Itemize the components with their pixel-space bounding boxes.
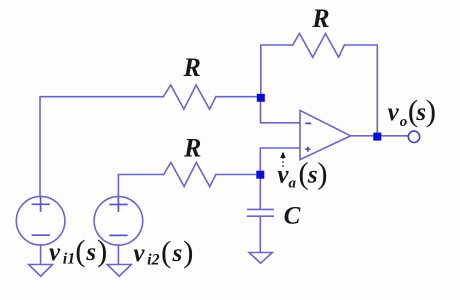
wire: op-amp non-inverting input to node B xyxy=(260,148,299,171)
wire: node B down to capacitor xyxy=(259,178,261,208)
capacitor C bottom plate xyxy=(248,215,274,217)
wire: feedback top right segment down to output node xyxy=(344,45,377,133)
node A (inverting input junction) xyxy=(257,94,265,102)
wire: R1 to node A xyxy=(216,96,257,98)
op-amp inverting pin (-) xyxy=(305,122,311,124)
resistor R2 (feedback resistor) xyxy=(293,34,345,58)
resistor R3 (non-inverting input resistor) xyxy=(164,163,216,187)
svg-text:vi2(s): vi2(s) xyxy=(133,234,193,269)
svg-text:C: C xyxy=(284,203,301,230)
ground (below V1) xyxy=(29,265,53,277)
wire: V1 bottom to ground xyxy=(40,245,42,264)
svg-text:R: R xyxy=(311,4,329,33)
V1 minus terminal mark xyxy=(32,234,50,236)
V1 plus terminal mark xyxy=(32,197,50,212)
V2 minus terminal mark xyxy=(109,234,127,236)
wire: node A down to op-amp inverting input xyxy=(261,101,300,123)
svg-text:vi1(s): vi1(s) xyxy=(49,233,107,268)
wire: source V2 up and right to R3 xyxy=(118,175,163,197)
node B (non-inverting junction) xyxy=(256,171,264,179)
svg-text:R: R xyxy=(183,133,201,162)
ground (below V2) xyxy=(107,265,131,277)
capacitor C top plate xyxy=(248,208,274,210)
output terminal circle v_o xyxy=(408,131,419,142)
svg-text:R: R xyxy=(183,53,201,82)
annotation arrow for node a (dashed, points up) xyxy=(280,152,285,168)
V2 plus terminal mark xyxy=(109,197,127,212)
wire: V2 bottom to ground xyxy=(117,245,119,264)
voltage source V2 circle xyxy=(94,197,143,246)
wire: source V1 up and right to R1 xyxy=(40,97,163,197)
wire: node A up and feedback top left segment xyxy=(261,45,293,95)
ground (below capacitor) xyxy=(249,253,272,264)
svg-text:vo(s): vo(s) xyxy=(388,93,437,130)
wire: op-amp output to terminal xyxy=(351,135,409,137)
op-amp U1 triangle xyxy=(300,110,351,159)
resistor R1 (inverting input resistor) xyxy=(163,85,216,109)
op-amp non-inverting pin (+) xyxy=(305,147,310,152)
wire: capacitor to ground xyxy=(259,217,261,252)
svg-text:va(s): va(s) xyxy=(277,155,327,191)
wire: R3 to node B xyxy=(216,174,257,176)
node: output junction xyxy=(373,133,381,141)
voltage source V1 circle xyxy=(16,196,65,245)
